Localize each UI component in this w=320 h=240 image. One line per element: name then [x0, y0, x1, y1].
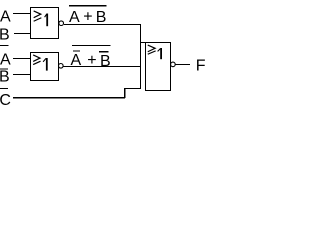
svg-text:C: C — [0, 92, 11, 109]
svg-text:B: B — [0, 27, 10, 44]
svg-text:A: A — [0, 9, 11, 26]
svg-text:B: B — [96, 9, 107, 26]
svg-text:B: B — [100, 53, 111, 70]
svg-text:A: A — [69, 9, 80, 26]
svg-text:A: A — [71, 52, 82, 69]
svg-text:B: B — [0, 69, 10, 86]
svg-text:F: F — [196, 58, 206, 75]
svg-text:A: A — [0, 52, 11, 69]
svg-text:+: + — [87, 52, 96, 69]
svg-text:+: + — [83, 8, 92, 25]
